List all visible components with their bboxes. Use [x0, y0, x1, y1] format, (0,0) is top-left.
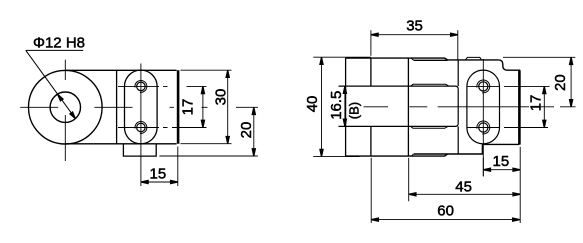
dim 45 line [409, 193, 521, 195]
flange hole top: thread arc [477, 80, 490, 93]
svg-text:60: 60 [437, 203, 454, 220]
slit top sliver [411, 84, 449, 86]
body top edge [346, 58, 448, 60]
dim 17 right line [543, 86, 545, 127]
shoulder vertical left [370, 58, 372, 156]
svg-text:15: 15 [150, 166, 167, 183]
flange obround arcs [467, 70, 500, 144]
circle horizontal centerline [20, 106, 258, 108]
bottom silhouette right of sliver [414, 144, 520, 154]
body bottom edge [346, 154, 448, 156]
svg-text:(B): (B) [347, 102, 362, 119]
flange hole top: minor circle [479, 82, 488, 91]
dim 40 extensions [313, 57, 371, 156]
hole centerline top [118, 85, 207, 87]
svg-text:16.5: 16.5 [328, 91, 345, 120]
clamp wall vertical [457, 60, 459, 154]
flange hole bottom: thread arc [477, 121, 490, 134]
plate top edge [66, 69, 177, 71]
flange top chamfer sliver [465, 57, 481, 60]
dim 35 line [371, 34, 458, 36]
dim 20 right line [570, 57, 572, 107]
flange obround right edge [499, 86, 501, 127]
svg-text:45: 45 [455, 178, 472, 195]
bottom tab [123, 144, 156, 156]
dim 30 left view [227, 70, 229, 144]
boss outer circle [29, 70, 103, 144]
step right edge (thick) [518, 70, 521, 144]
svg-text:15: 15 [493, 153, 510, 170]
flange hole top centerline [467, 85, 550, 87]
dim 15 extension right [177, 147, 179, 187]
obround vertical centerline [140, 64, 142, 187]
dim 60 line [371, 219, 520, 221]
leader arrowheads [58, 94, 76, 118]
flange top right fillet [498, 60, 520, 70]
svg-text:17: 17 [179, 99, 196, 116]
dim 20 left view [253, 107, 255, 156]
top chamfer sliver diagonal [411, 58, 414, 60]
plate left edge [116, 70, 118, 144]
hole centerline bottom [118, 127, 207, 129]
svg-text:20: 20 [552, 74, 569, 91]
dim 15 right line [483, 169, 520, 171]
flange obround left edge [466, 86, 468, 127]
slit bottom sliver [411, 126, 448, 128]
svg-text:30: 30 [212, 89, 229, 106]
circle vertical centerline [64, 60, 66, 161]
bore circle Phi12 [50, 92, 80, 122]
flange hole vertical centerline [482, 59, 484, 176]
flange hole bottom: minor circle [479, 123, 488, 132]
bottom chamfer sliver diagonal [411, 154, 414, 156]
dim 60 extension [370, 158, 372, 223]
dim 45 extension [408, 158, 410, 202]
dim 15 right extensions [483, 147, 520, 223]
body left edge [345, 58, 347, 156]
shoulder vertical mid [407, 58, 409, 156]
top silhouette right of sliver [414, 59, 499, 61]
tapped hole bottom: thread arc [135, 122, 147, 134]
slot obround [125, 70, 158, 144]
tapped hole bottom: minor circle [137, 123, 146, 132]
dim 17 left view [202, 86, 204, 127]
plate right edge (thick) [177, 70, 180, 144]
tapped hole top: thread arc [135, 80, 147, 92]
leader line Phi12 H8 [26, 50, 76, 118]
svg-text:35: 35 [406, 18, 423, 35]
svg-text:40: 40 [304, 96, 321, 113]
svg-text:17: 17 [527, 95, 544, 112]
plate bottom edge [66, 143, 177, 145]
part axis centerline [364, 106, 576, 108]
tapped hole top: minor circle [137, 82, 146, 91]
slit top edge [339, 86, 459, 89]
svg-text:Φ12 H8: Φ12 H8 [33, 34, 85, 51]
dim 35 extensions [371, 30, 458, 60]
dim 16.5 line [344, 86, 346, 126]
slit bottom edge [339, 123, 459, 126]
svg-text:20: 20 [238, 122, 255, 139]
leader underline [26, 49, 83, 51]
dim 15 left view [141, 181, 178, 183]
dim 30 extension bottom [181, 143, 232, 145]
dim 30 extension top [181, 69, 232, 71]
dim 20 extension bottom (tab) [159, 155, 257, 157]
dim 20 right extension [503, 56, 575, 58]
flange hole bottom centerline [467, 127, 548, 129]
dim 40 line [321, 57, 323, 156]
